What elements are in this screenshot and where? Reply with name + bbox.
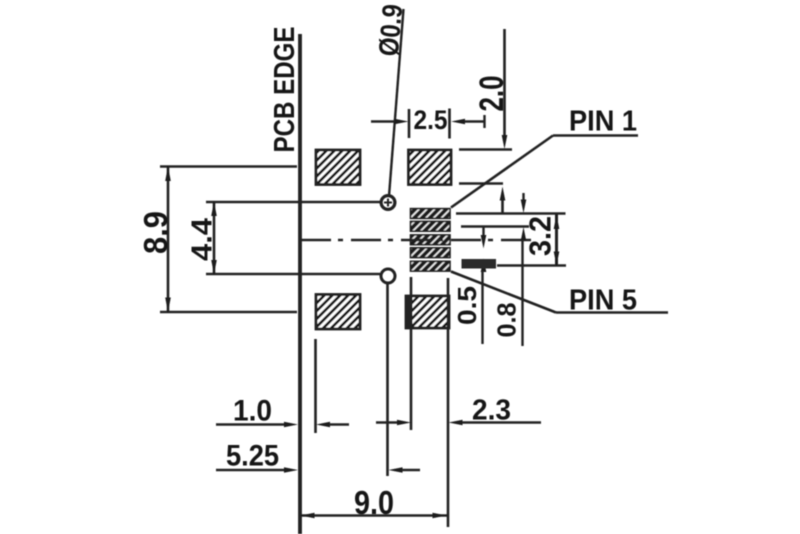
svg-text:PCB EDGE: PCB EDGE (269, 27, 301, 153)
dim 0.5 arrow down (481, 235, 487, 249)
dim 5.25 tail left (216, 469, 285, 472)
dim 5.25 arrow left (389, 467, 403, 473)
svg-text:1.0: 1.0 (233, 395, 272, 428)
dim 9.0 line (300, 514, 447, 517)
leader PIN 1 diagonal (451, 136, 553, 208)
leader PIN 1 underline (553, 134, 638, 137)
svg-text:2.0: 2.0 (473, 76, 511, 112)
dim 0.8 arrow up (521, 227, 527, 241)
dim 2.5 arrow right (395, 119, 409, 125)
dim 8.9 line (167, 167, 170, 313)
pin pad 1 (411, 209, 451, 219)
pad bottom-left (316, 295, 360, 330)
dim 1.0 tail right (329, 423, 349, 426)
dim 4.4 arrow down (211, 260, 217, 274)
svg-text:3.2: 3.2 (523, 216, 558, 256)
pin pad 2 (411, 221, 451, 231)
svg-text:8.9: 8.9 (137, 211, 174, 254)
dim 4.4 line (213, 202, 216, 274)
dim 2.0 arrow down (502, 135, 508, 149)
dim 3.2 line (555, 215, 558, 266)
centerline (301, 239, 532, 241)
ext line pin1 center (456, 212, 566, 214)
svg-text:0.5: 0.5 (452, 286, 482, 325)
dim 0.5 arrow up (481, 259, 487, 273)
dim 3.2 arrow up (554, 215, 560, 230)
dim 3.2 arrow down (554, 252, 560, 266)
dim 8.9 arrow down (165, 298, 171, 313)
dim 8.9 arrow up (165, 167, 171, 182)
dim 2.5 tail end tick (483, 115, 485, 128)
dim 2.0 line lower tail (501, 200, 504, 214)
pad top-center (409, 150, 452, 185)
ext line pin pads left (410, 277, 413, 430)
dim 1.0 tail left (216, 423, 285, 426)
dim 2.3 arrow right (397, 420, 411, 426)
svg-text:Ø0.9: Ø0.9 (373, 3, 408, 58)
dim 2.3 arrow left (449, 420, 463, 426)
dim 2.5 tick left (408, 109, 411, 138)
dim 2.5 tail left (371, 120, 395, 123)
ext line hole centers (386, 283, 389, 476)
pad top-left (316, 150, 360, 185)
dim 8.9 ext line top (160, 165, 297, 168)
dim 2.0 line upper (503, 29, 506, 136)
leader dia 0.9 (389, 9, 404, 196)
dim 9.0 arrow left (301, 513, 315, 519)
dim 0.8 lower tail (521, 240, 523, 346)
dim 0.5 lower tail (481, 271, 483, 344)
ext line right (pads right edge) (447, 278, 450, 527)
dim 5.25 tail right (402, 469, 420, 472)
svg-text:2.5: 2.5 (414, 105, 448, 135)
dim 1.0 arrow left (316, 422, 330, 428)
pin pad 5 (411, 261, 451, 271)
pin pad 4 (411, 248, 451, 258)
dim 2.5 tail right (465, 120, 485, 123)
svg-text:2.3: 2.3 (472, 395, 511, 427)
ext line pin2 center (461, 225, 529, 227)
dim 9.0 arrow right (433, 513, 447, 519)
dim 4.4 arrow up (211, 202, 217, 216)
svg-text:4.4: 4.4 (187, 218, 219, 261)
PCB edge line (298, 34, 302, 534)
pin pad 3 (411, 235, 451, 245)
pad bottom-center dark left edge (406, 296, 413, 328)
svg-text:5.25: 5.25 (226, 440, 279, 473)
hole top (circled plus) (381, 196, 395, 210)
dim 2.5 arrow left (451, 119, 465, 125)
dim 2.3 tail left (376, 421, 398, 424)
dim 5.25 arrow right (284, 467, 298, 473)
thick bar pad5 extension (462, 259, 497, 269)
pad bottom-center (406, 296, 449, 328)
svg-text:0.8: 0.8 (492, 303, 522, 338)
dim 4.4 ext line top (206, 201, 381, 204)
svg-text:PIN 1: PIN 1 (569, 106, 637, 138)
dim 0.5 upper tail (482, 227, 484, 235)
dim 2.0 ext line top (459, 148, 512, 151)
leader PIN 5 underline (556, 311, 668, 314)
ext line bottom-left pad (314, 339, 317, 433)
dim 8.9 ext line bottom (160, 311, 297, 314)
leader PIN 5 diagonal (451, 272, 556, 313)
dim 4.4 ext line bottom (206, 273, 380, 276)
dim 1.0 arrow right (284, 422, 298, 428)
dim 2.3 tail right (462, 421, 541, 424)
hole bottom (circle) (381, 269, 395, 283)
svg-text:9.0: 9.0 (354, 484, 394, 521)
dim 3.2 ext line bottom (497, 264, 566, 266)
dim 0.8 arrow down (521, 200, 527, 214)
dim 2.5 tick right (448, 109, 451, 139)
dim 2.0 arrow up (500, 187, 506, 201)
dim 2.0 ext line bottom (459, 182, 503, 185)
dim 0.8 upper tail (522, 193, 524, 200)
